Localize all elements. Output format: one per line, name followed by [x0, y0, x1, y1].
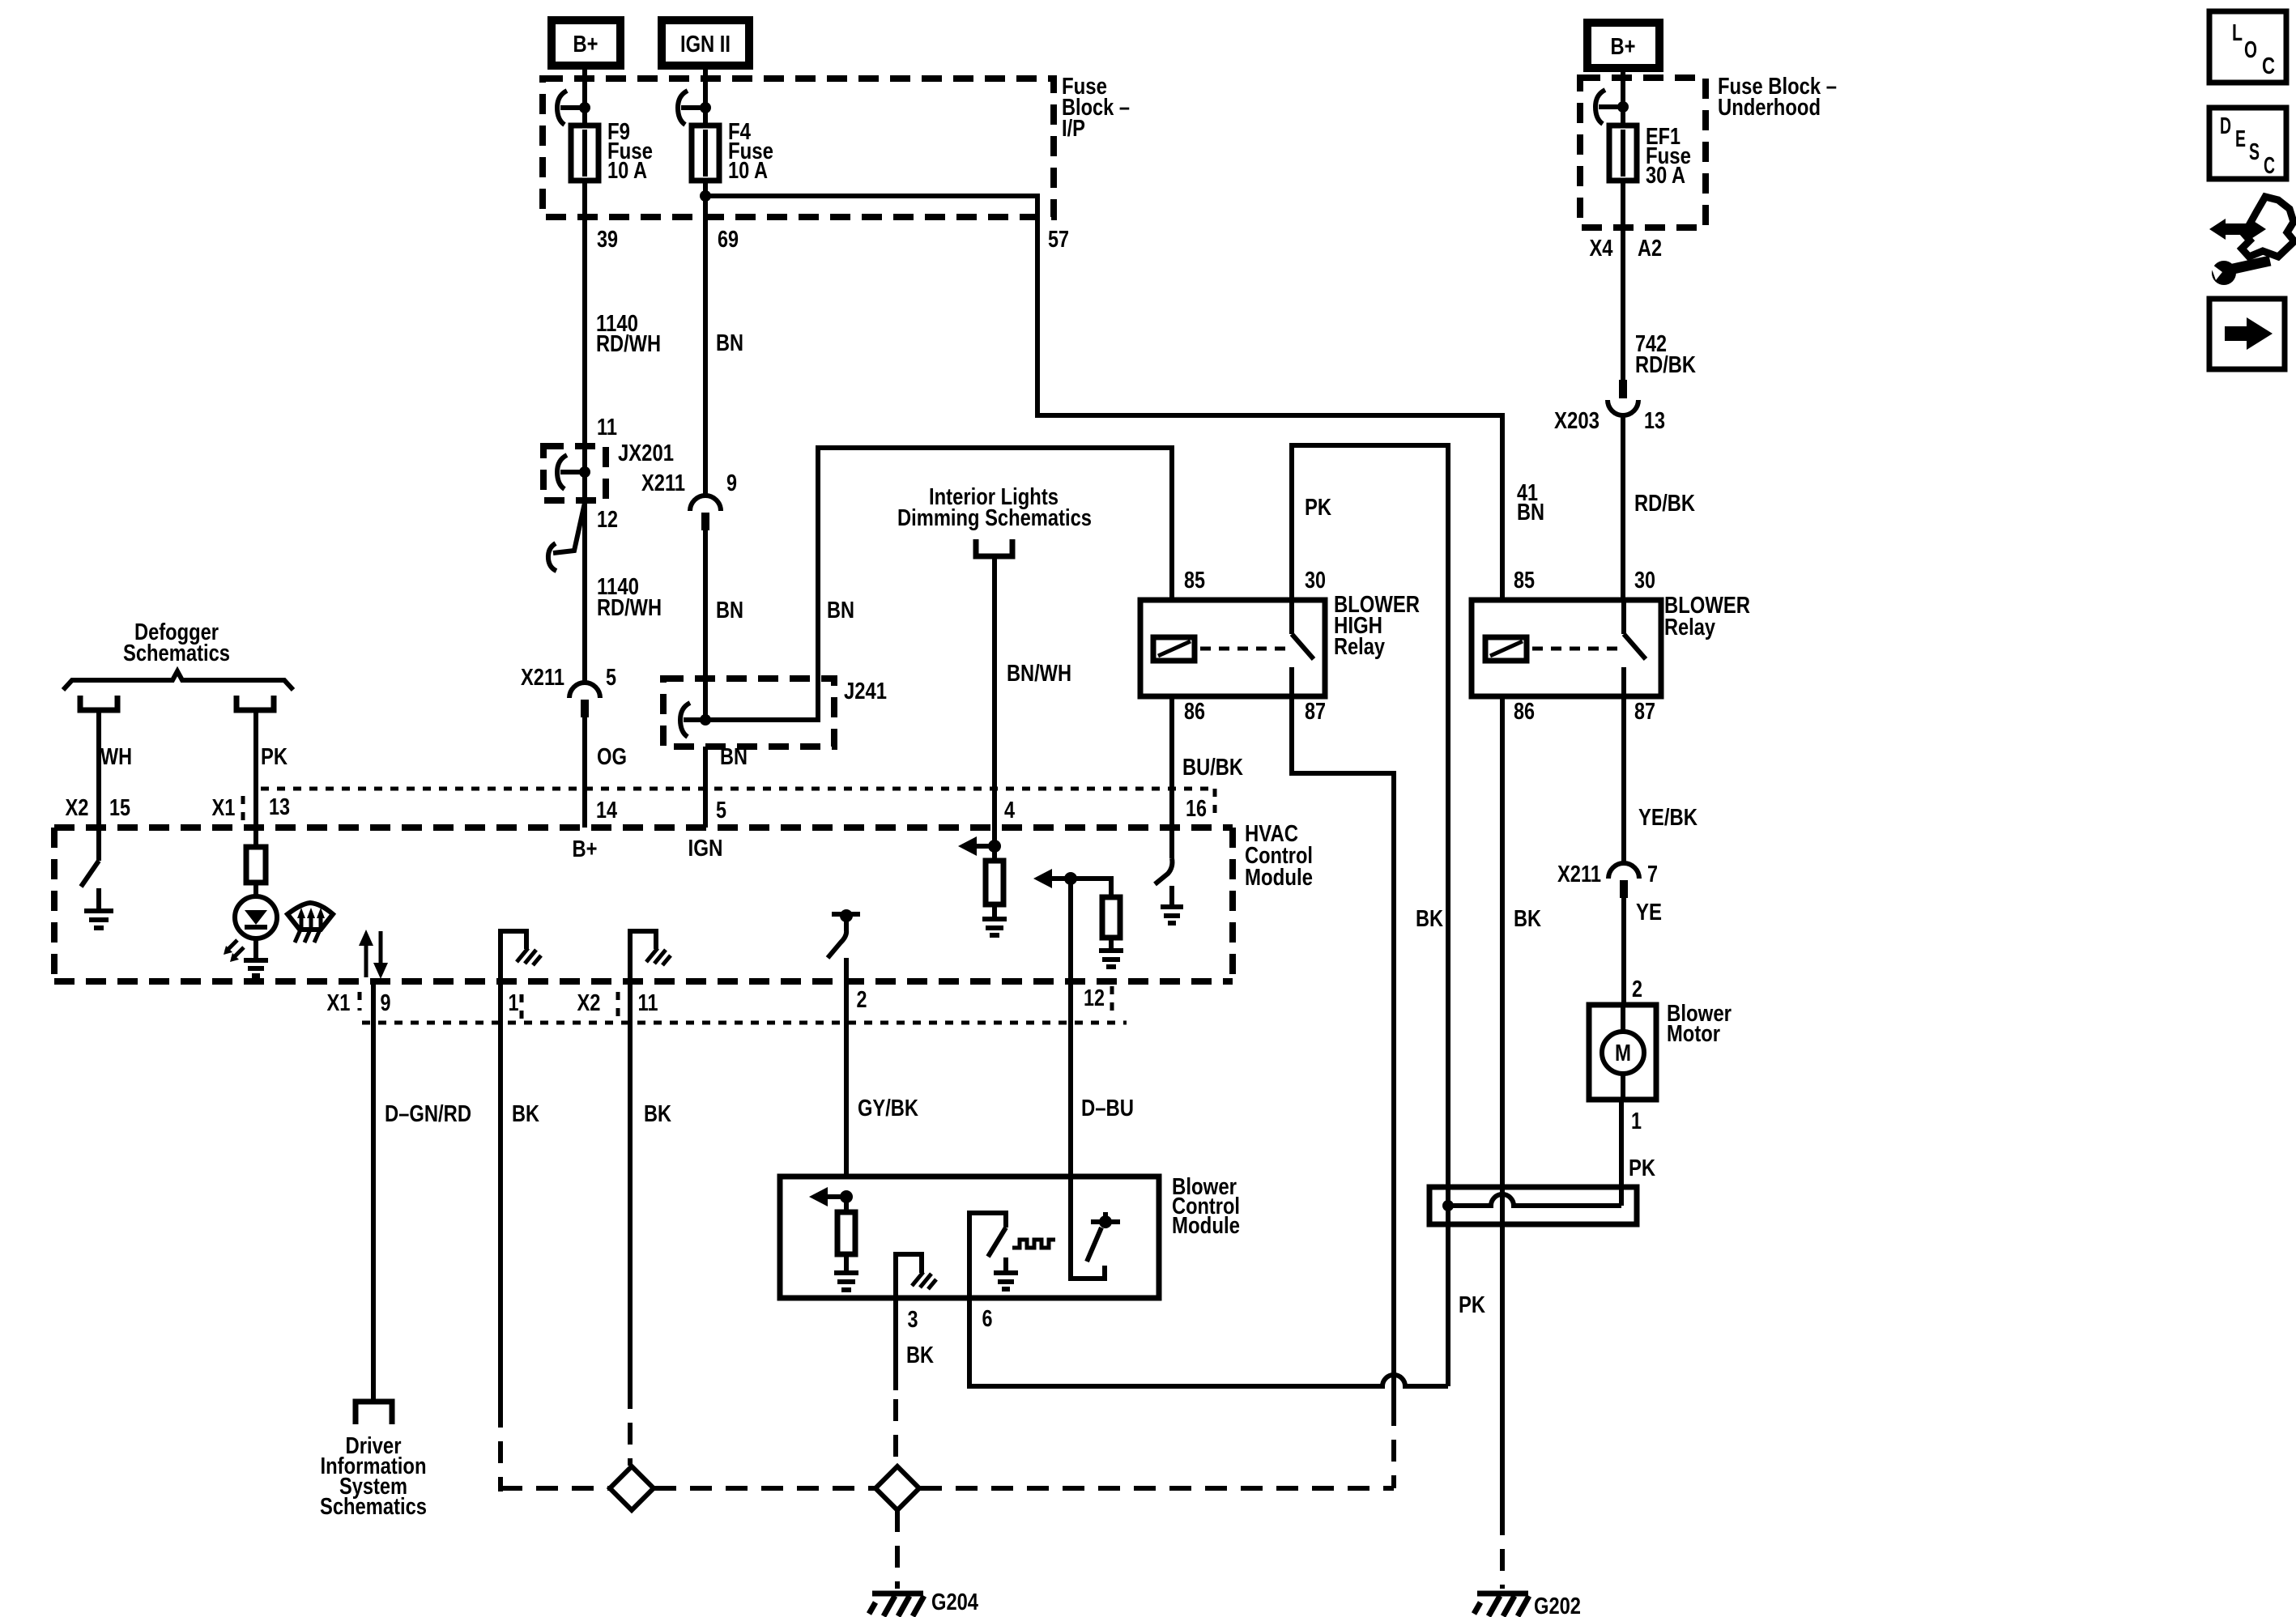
svg-text:10 A: 10 A	[728, 158, 768, 184]
chassis ground hook pin 1	[501, 931, 526, 981]
wire BN/WH	[992, 556, 997, 846]
pin 12 riser junction dot and arrow	[1068, 879, 1073, 981]
svg-text:O: O	[2244, 37, 2257, 63]
svg-text:X2: X2	[66, 795, 89, 821]
svg-text:BK: BK	[512, 1101, 539, 1127]
wire J241 to relay 85	[705, 448, 1172, 720]
indicator resistor	[253, 828, 258, 847]
top connector dotted row	[261, 787, 1213, 791]
svg-text:Underhood: Underhood	[1718, 95, 1821, 121]
wire pin 6 run with hop	[969, 1298, 1448, 1386]
svg-text:G202: G202	[1534, 1594, 1581, 1617]
svg-text:B+: B+	[573, 32, 598, 57]
svg-text:Schematics: Schematics	[123, 640, 230, 666]
ground G202	[1477, 1591, 1528, 1597]
pin 16 switch to ground	[1169, 828, 1174, 858]
off-page bracket defogger PK	[236, 696, 274, 710]
svg-text:Schematics: Schematics	[320, 1494, 427, 1520]
connector X211 pin 5	[569, 683, 600, 698]
relay BLOWER box	[1472, 600, 1661, 696]
splice wire with hop over BK	[1448, 1194, 1621, 1206]
up-down arrows pin 9	[364, 942, 368, 977]
svg-text:X211: X211	[1557, 862, 1601, 887]
connector X211 pin 9	[690, 496, 721, 511]
pin 4 junction dot and arrow	[988, 840, 1001, 853]
svg-text:4: 4	[1004, 798, 1015, 823]
J241 bus terminal	[680, 703, 690, 737]
svg-text:86: 86	[1184, 699, 1205, 725]
dashed to ground G204	[895, 1510, 900, 1589]
svg-text:12: 12	[597, 507, 618, 533]
svg-text:D–GN/RD: D–GN/RD	[385, 1101, 471, 1127]
svg-text:87: 87	[1634, 699, 1655, 725]
LED light arrows	[226, 940, 237, 951]
svg-text:BN: BN	[720, 744, 748, 770]
svg-text:D–BU: D–BU	[1081, 1096, 1134, 1121]
svg-text:11: 11	[597, 415, 617, 440]
svg-text:Module: Module	[1245, 865, 1313, 891]
wire PK	[253, 710, 258, 828]
relay BLOWER HIGH switch	[1289, 600, 1294, 634]
wire PK relay 30 riser	[1292, 445, 1448, 1386]
svg-text:2: 2	[1632, 977, 1642, 1002]
svg-text:85: 85	[1184, 568, 1205, 594]
defogger switch	[96, 828, 101, 861]
motor symbol	[1621, 1005, 1625, 1032]
connector mark pin 16	[1213, 789, 1217, 821]
wire 57 run	[705, 196, 1502, 600]
svg-text:D: D	[2220, 113, 2231, 139]
svg-text:OG: OG	[597, 744, 627, 770]
off-page bracket defogger WH	[80, 696, 117, 710]
svg-text:85: 85	[1514, 568, 1535, 594]
wire F4 down	[703, 181, 708, 496]
svg-text:Relay: Relay	[1334, 634, 1385, 660]
wire B+ feed underhood	[1621, 63, 1625, 127]
svg-text:BK: BK	[644, 1101, 671, 1127]
dashed ground bus	[501, 1486, 609, 1491]
fuse F4	[692, 126, 719, 181]
off-page bracket driver info	[356, 1402, 392, 1424]
off-page bracket interior lights	[976, 539, 1012, 556]
pin 2 switch	[832, 912, 860, 917]
svg-text:PK: PK	[1459, 1292, 1485, 1318]
svg-text:X211: X211	[521, 665, 564, 691]
blower control module box	[780, 1177, 1159, 1298]
svg-text:S: S	[2249, 139, 2260, 165]
svg-text:RD/BK: RD/BK	[1635, 352, 1696, 378]
svg-text:M: M	[1615, 1040, 1631, 1066]
svg-text:GY/BK: GY/BK	[858, 1096, 918, 1121]
svg-text:L: L	[2232, 20, 2243, 46]
ground G204	[872, 1591, 923, 1597]
BCM pin 1 transistor switch	[1071, 1177, 1105, 1279]
defrost icon	[288, 903, 333, 930]
JX201 exit terminal lead	[553, 503, 585, 553]
svg-text:PK: PK	[1629, 1155, 1655, 1181]
dashed BK pin 1 leg	[498, 1406, 503, 1491]
svg-text:B+: B+	[1611, 34, 1636, 60]
wire BN to J241	[703, 530, 708, 720]
fuse EF1	[1609, 126, 1637, 181]
svg-text:YE: YE	[1636, 900, 1662, 926]
fuse block I/P dashed box	[543, 79, 1054, 217]
relay BLOWER HIGH coil	[1153, 637, 1195, 661]
connector X203 pin 13	[1619, 380, 1627, 398]
svg-text:13: 13	[269, 794, 290, 820]
svg-text:C: C	[2264, 153, 2275, 179]
relay BLOWER coil	[1485, 637, 1527, 661]
svg-text:30 A: 30 A	[1646, 163, 1685, 189]
wire F9 to JX201	[582, 181, 587, 472]
svg-text:Module: Module	[1172, 1213, 1240, 1239]
relay BLOWER switch	[1621, 600, 1626, 634]
svg-text:16: 16	[1186, 796, 1207, 822]
svg-text:15: 15	[109, 795, 130, 821]
JX201 bus terminal	[557, 455, 567, 489]
dashed BK pin 3 to splice	[893, 1399, 898, 1466]
wire BK pin 11	[628, 981, 633, 1387]
svg-text:G204: G204	[931, 1589, 978, 1615]
wire YE/BK relay 87 to X211-7	[1621, 696, 1626, 863]
svg-text:5: 5	[716, 798, 726, 823]
svg-text:39: 39	[597, 227, 618, 253]
svg-text:69: 69	[718, 227, 739, 253]
bottom connector dotted row	[362, 1021, 1127, 1025]
svg-text:JX201: JX201	[618, 440, 674, 466]
brace	[63, 671, 293, 690]
wire D-GN/RD pin 9	[371, 981, 376, 1401]
BCM PWM ground	[1003, 1257, 1008, 1271]
icon arrow box	[2209, 299, 2285, 369]
wire RD/BK to relay 30	[1621, 415, 1625, 600]
svg-text:BK: BK	[906, 1343, 934, 1368]
wire B+ feed	[582, 63, 587, 127]
bus terminal pin at F9	[557, 91, 567, 125]
connector marks bottom row	[358, 992, 362, 1011]
svg-text:BN: BN	[716, 330, 743, 356]
wire BU/BK relay 86 to HVAC 16	[1169, 696, 1174, 828]
svg-text:BK: BK	[1514, 906, 1541, 932]
connector X211 pin 7	[1608, 863, 1639, 879]
svg-text:BK: BK	[1416, 906, 1443, 932]
svg-text:PK: PK	[1305, 495, 1331, 521]
svg-text:X211: X211	[641, 470, 685, 496]
svg-text:9: 9	[381, 990, 391, 1016]
fuse F9	[571, 126, 598, 181]
wire IGN feed	[703, 63, 708, 127]
svg-text:BN: BN	[716, 598, 743, 623]
wire YE to blower motor	[1621, 898, 1626, 1005]
splice junction dot	[1442, 1200, 1454, 1211]
junction block JX201 dashed box	[543, 446, 606, 500]
BCM pin 4 node and arrow	[840, 1190, 853, 1203]
icon service glyph	[2242, 197, 2294, 257]
connector mark X1	[241, 796, 245, 822]
HVAC module dashed outline	[54, 824, 1233, 831]
svg-text:30: 30	[1305, 568, 1326, 594]
junction block J241 dashed box	[663, 679, 834, 747]
icon LOC box	[2209, 11, 2286, 83]
svg-text:Dimming Schematics: Dimming Schematics	[897, 505, 1092, 531]
ground defogger switch	[96, 888, 101, 908]
B+ terminal box underhood	[1587, 23, 1659, 68]
wire BN to HVAC pin 5	[703, 747, 708, 828]
svg-text:57: 57	[1048, 227, 1069, 253]
svg-text:3: 3	[908, 1307, 918, 1333]
wire BK relay 87 down	[1292, 696, 1394, 1404]
bus terminal pin at F4	[678, 91, 688, 125]
splice diamond S2	[875, 1466, 919, 1510]
wire JX201 to X211-5	[582, 472, 587, 683]
wire WH	[96, 710, 101, 828]
svg-text:A2: A2	[1638, 236, 1662, 262]
svg-text:X1: X1	[212, 795, 236, 821]
B+ terminal box	[552, 20, 620, 66]
svg-text:14: 14	[596, 798, 617, 823]
svg-text:6: 6	[982, 1306, 993, 1332]
blower motor box	[1589, 1005, 1656, 1100]
svg-text:PK: PK	[261, 744, 288, 770]
wire BK pin 3	[893, 1298, 898, 1390]
wire PK motor to splice	[1619, 1100, 1624, 1206]
svg-text:RD/WH: RD/WH	[596, 331, 661, 357]
svg-text:5: 5	[606, 665, 616, 691]
svg-text:YE/BK: YE/BK	[1638, 805, 1698, 831]
svg-text:IGN II: IGN II	[680, 32, 731, 57]
svg-text:BN: BN	[1517, 500, 1544, 526]
svg-text:2: 2	[857, 987, 867, 1013]
svg-text:X2: X2	[577, 990, 601, 1016]
svg-text:12: 12	[1084, 985, 1105, 1011]
svg-text:I/P: I/P	[1062, 116, 1085, 142]
svg-text:E: E	[2235, 126, 2246, 152]
pin 4 resistor to ground	[992, 846, 997, 861]
svg-text:Relay: Relay	[1664, 615, 1715, 640]
svg-text:13: 13	[1644, 408, 1665, 434]
wire D-BU pin 12 to BCM pin 1	[1068, 981, 1073, 1177]
BCM resistor to ground	[844, 1197, 849, 1212]
splice diamond S1	[610, 1466, 654, 1510]
svg-text:Motor: Motor	[1667, 1021, 1720, 1047]
svg-text:B+: B+	[573, 836, 598, 862]
svg-text:1: 1	[1631, 1108, 1642, 1134]
svg-text:10 A: 10 A	[607, 158, 647, 184]
svg-text:BN/WH: BN/WH	[1007, 661, 1071, 687]
svg-text:C: C	[2262, 53, 2275, 79]
svg-text:9: 9	[726, 470, 737, 496]
svg-text:87: 87	[1305, 699, 1326, 725]
svg-text:7: 7	[1647, 862, 1658, 887]
svg-text:WH: WH	[100, 744, 132, 770]
svg-text:J241: J241	[844, 679, 887, 704]
LED indicator	[235, 896, 277, 938]
bus terminal pin at EF1	[1595, 90, 1605, 124]
svg-text:RD/WH: RD/WH	[597, 595, 662, 621]
LED ground	[253, 938, 258, 959]
svg-text:BU/BK: BU/BK	[1182, 755, 1243, 781]
svg-text:30: 30	[1634, 568, 1655, 594]
BCM chassis ground hook pin 3	[896, 1254, 922, 1298]
svg-text:X4: X4	[1590, 236, 1613, 262]
icon wrench	[2230, 261, 2270, 270]
svg-text:BN: BN	[827, 598, 854, 623]
wire GY/BK pin 2 to BCM pin 4	[844, 958, 849, 1177]
svg-text:86: 86	[1514, 699, 1535, 725]
wire 742 RD/BK	[1621, 181, 1625, 380]
splice pack box	[1429, 1187, 1637, 1224]
chassis ground hook pin 11	[630, 931, 656, 981]
relay BLOWER HIGH box	[1140, 600, 1325, 696]
svg-text:X203: X203	[1554, 408, 1600, 434]
wire BK relay 86 to G202	[1500, 696, 1505, 1513]
wire OG to HVAC pin 14	[582, 717, 587, 828]
pin 12 resistor to ground	[1071, 879, 1111, 897]
svg-text:11: 11	[638, 990, 658, 1016]
svg-text:IGN: IGN	[688, 836, 723, 862]
icon DESC box	[2209, 108, 2286, 179]
BCM PWM switch	[969, 1213, 1006, 1298]
fuse block underhood dashed box	[1580, 78, 1706, 228]
dashed BK to ground G202	[1500, 1513, 1505, 1589]
svg-text:RD/BK: RD/BK	[1634, 491, 1695, 517]
wire BK pin 1	[498, 981, 503, 1406]
svg-text:1: 1	[509, 990, 519, 1016]
dashed BK pin 11 leg	[628, 1387, 633, 1466]
svg-text:X1: X1	[327, 990, 351, 1016]
IGN II terminal box	[662, 20, 749, 66]
node junction F4 output	[700, 190, 711, 202]
dashed BK relay 87 leg	[1391, 1404, 1396, 1488]
